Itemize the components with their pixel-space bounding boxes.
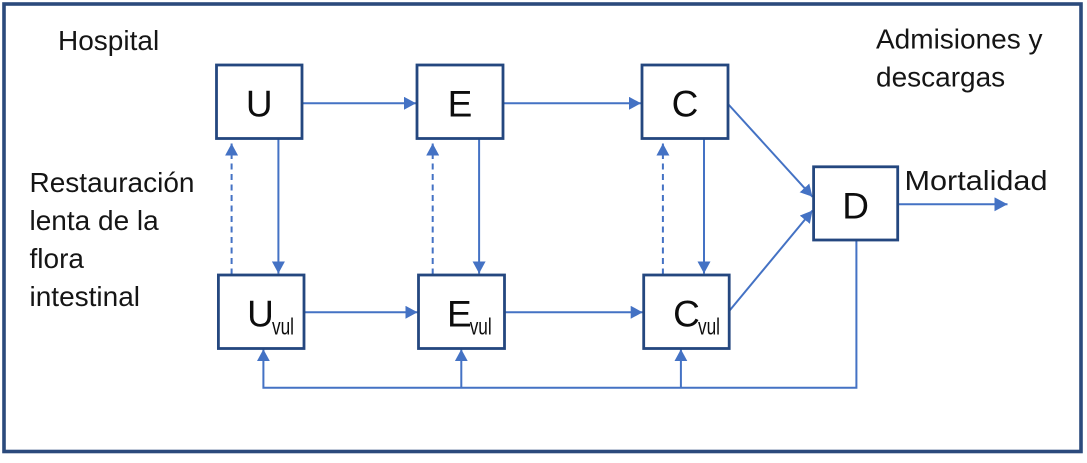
wire feedback branch up to Evul [460,349,462,388]
wire E down to Evul [478,139,480,274]
wire U to E [302,102,416,104]
svg-text:Restauración: Restauración [30,167,195,198]
dashed wire Uvul up to U [231,144,233,275]
box C [642,65,728,139]
dashed wire Cvul up to C [662,144,664,275]
wire feedback from D bottom to Uvul [263,240,856,388]
wire Evul to Cvul [505,311,643,313]
svg-text:lenta de la: lenta de la [30,205,160,236]
svg-text:U: U [246,84,273,125]
svg-text:E: E [447,293,472,334]
svg-text:C: C [673,293,700,334]
box Cvul [644,275,730,349]
svg-text:C: C [672,84,699,125]
wire C diagonal to D [729,105,813,197]
box U [217,65,303,139]
svg-text:U: U [247,293,274,334]
wire E to C [503,102,641,104]
box Evul [419,275,505,349]
svg-text:vul: vul [272,313,294,339]
wire D to Mortalidad [898,203,1008,205]
svg-text:flora: flora [30,243,85,274]
svg-text:descargas: descargas [876,62,1005,93]
svg-text:intestinal: intestinal [30,281,141,312]
box E [417,65,503,139]
svg-text:D: D [842,185,869,226]
box D [814,167,898,240]
wire feedback branch up to Cvul [680,349,682,388]
svg-text:E: E [448,84,473,125]
svg-text:Admisiones y: Admisiones y [876,24,1043,55]
wire Uvul to Evul [304,311,418,313]
wire Cvul diagonal to D [729,211,812,312]
wire U down to Uvul [277,139,279,274]
svg-text:vul: vul [698,313,720,339]
box Uvul [218,275,304,349]
svg-text:vul: vul [470,313,492,339]
wire C down to Cvul [703,139,705,274]
svg-text:Hospital: Hospital [58,25,159,56]
dashed wire Evul up to E [432,144,434,275]
svg-text:Mortalidad: Mortalidad [905,165,1048,196]
